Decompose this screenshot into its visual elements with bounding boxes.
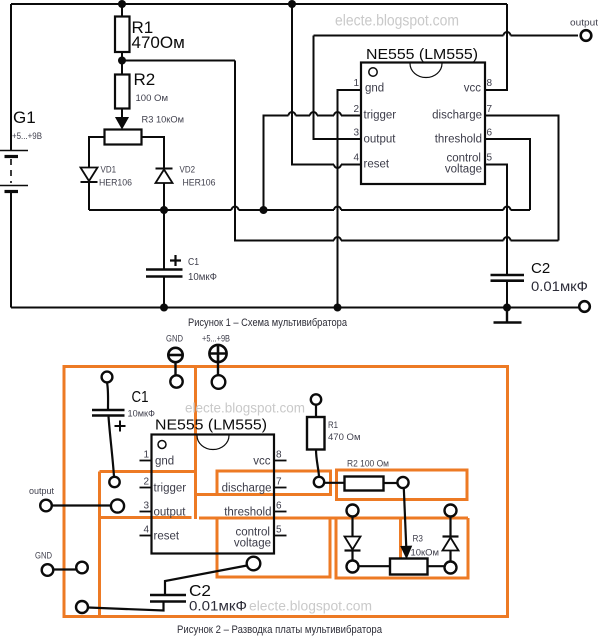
svg-text:C2: C2 xyxy=(189,583,211,600)
svg-text:1: 1 xyxy=(143,450,149,461)
diode VD1 pcb xyxy=(345,517,361,561)
svg-text:7: 7 xyxy=(487,104,493,115)
pad R2 right xyxy=(397,477,408,488)
wire output terminal lead xyxy=(52,504,111,506)
svg-text:G1: G1 xyxy=(13,108,36,127)
svg-text:R2 100 Ом: R2 100 Ом xyxy=(347,459,389,470)
svg-text:5: 5 xyxy=(487,153,493,164)
svg-text:8: 8 xyxy=(276,450,282,461)
wire top VCC rail xyxy=(11,3,507,5)
pcb trace diode divider xyxy=(399,518,402,558)
pcb trace V1 vertical xyxy=(194,368,197,519)
pcb outer trace border xyxy=(64,367,508,617)
pcb trace threshold band xyxy=(199,517,468,520)
wire R3 left lead xyxy=(359,565,391,567)
svg-text:7: 7 xyxy=(276,477,282,488)
svg-text:R3: R3 xyxy=(413,534,424,545)
potentiometer R3 xyxy=(105,130,142,145)
svg-text:VD2: VD2 xyxy=(180,165,196,176)
capacitor C1 xyxy=(146,210,183,308)
wire C2 top lead xyxy=(165,566,247,596)
capacitor C2 xyxy=(491,275,525,308)
pin 6 threshold pcb xyxy=(224,501,286,519)
resistor R1 pcb xyxy=(307,405,325,477)
svg-text:NE555 (LM555): NE555 (LM555) xyxy=(155,417,267,434)
svg-text:470Ом: 470Ом xyxy=(132,33,185,52)
wire threshold horizontal xyxy=(89,207,530,210)
pad VD1 top xyxy=(347,505,359,517)
pcb trace discharge box xyxy=(217,471,331,495)
svg-text:0.01мкФ: 0.01мкФ xyxy=(189,599,247,614)
resistor R2 xyxy=(115,75,130,109)
wire pot left bracket xyxy=(89,137,105,168)
wire R1 to R2 xyxy=(121,52,123,75)
svg-text:4: 4 xyxy=(143,525,149,536)
svg-text:threshold: threshold xyxy=(435,134,482,146)
svg-text:4: 4 xyxy=(353,153,359,164)
svg-text:6: 6 xyxy=(276,501,282,512)
wire pot right bracket xyxy=(142,137,165,168)
svg-text:HER106: HER106 xyxy=(99,178,132,189)
pcb trace rectA bottom xyxy=(100,516,192,519)
svg-text:discharge: discharge xyxy=(222,483,272,495)
terminal output top xyxy=(581,30,592,41)
svg-text:voltage: voltage xyxy=(445,164,482,176)
terminal plus xyxy=(209,345,227,376)
IC notch xyxy=(410,64,442,78)
svg-text:Рисунок 1 – Схема мультивибрат: Рисунок 1 – Схема мультивибратора xyxy=(188,317,347,329)
pin 4 reset pcb xyxy=(140,525,180,543)
wire R2 wiper arrow xyxy=(116,109,128,129)
svg-text:gnd: gnd xyxy=(365,83,384,95)
wire battery to ground rail xyxy=(10,193,12,308)
svg-text:10мкФ: 10мкФ xyxy=(188,271,217,283)
label control voltage xyxy=(445,153,482,176)
svg-text:+5...+9В: +5...+9В xyxy=(202,334,230,344)
pin 7 discharge pcb xyxy=(222,477,287,495)
pad R1 bottom xyxy=(314,477,324,487)
wire node A riser to discharge xyxy=(235,61,559,241)
svg-text:C1: C1 xyxy=(188,256,199,268)
wire C2 bottom lead xyxy=(88,602,164,611)
svg-text:5: 5 xyxy=(276,525,282,536)
terminal output pcb xyxy=(40,500,52,512)
svg-text:output: output xyxy=(364,134,397,146)
pin 1 gnd pcb xyxy=(140,450,175,468)
pcb trace left vertical xyxy=(98,472,101,617)
pad GND top xyxy=(170,375,182,387)
svg-text:Рисунок 2 – Разводка платы мул: Рисунок 2 – Разводка платы мультивибрато… xyxy=(177,624,382,636)
pin 1 indicator circle xyxy=(369,68,377,76)
wire threshold drop xyxy=(485,139,530,210)
node gnd rail xyxy=(334,304,342,312)
node reset rail xyxy=(288,0,296,8)
IC notch pcb xyxy=(197,436,229,450)
wire vcc riser xyxy=(485,4,507,90)
svg-text:reset: reset xyxy=(154,531,180,543)
svg-text:R3 10кОм: R3 10кОм xyxy=(142,115,185,126)
svg-text:2: 2 xyxy=(143,477,149,488)
wire GND terminal lead xyxy=(53,568,76,570)
node trigger junction xyxy=(260,206,268,214)
wire control drop to C2 xyxy=(485,165,507,276)
wire trigger riser xyxy=(264,112,362,210)
potentiometer R3 pcb xyxy=(390,559,428,575)
pcb trace H1 xyxy=(100,470,198,473)
svg-text:470 Ом: 470 Ом xyxy=(328,432,361,443)
terminal GND minus xyxy=(168,348,182,376)
node top rail R1 junction xyxy=(118,0,126,8)
pad VD2 top xyxy=(445,505,457,517)
pin 5 control pcb xyxy=(234,525,287,550)
pad R1 top xyxy=(311,394,321,404)
wire output to terminal xyxy=(314,32,579,139)
pad C1 bottom xyxy=(109,477,119,487)
terminal GND left xyxy=(42,564,54,576)
wire ground bottom rail xyxy=(11,307,578,309)
svg-text:output: output xyxy=(570,18,599,28)
battery G1 xyxy=(0,151,28,192)
svg-text:3: 3 xyxy=(143,501,149,512)
resistor R2 pcb xyxy=(324,477,398,491)
pad plus xyxy=(212,375,226,389)
svg-text:electe.blogspot.com: electe.blogspot.com xyxy=(185,401,305,416)
capacitor C1 pcb xyxy=(92,383,126,477)
pad control voltage pcb xyxy=(247,557,261,571)
svg-text:10кОм: 10кОм xyxy=(411,548,440,559)
wire node A to discharge column xyxy=(122,60,235,62)
wire R1 top lead xyxy=(121,4,123,17)
wire R3 right lead xyxy=(428,565,445,567)
pin 2 trigger pcb xyxy=(140,477,187,495)
svg-text:reset: reset xyxy=(364,159,390,171)
svg-text:8: 8 xyxy=(487,78,493,89)
svg-text:+5...+9В: +5...+9В xyxy=(12,131,42,142)
capacitor C2 pcb xyxy=(150,595,186,602)
pad C1 top xyxy=(102,372,113,383)
node diode C1 junction xyxy=(160,206,168,214)
pad output pcb xyxy=(111,499,124,512)
svg-text:GND: GND xyxy=(35,551,52,561)
pcb trace H2 link xyxy=(196,493,218,496)
pad R3 left xyxy=(347,561,359,573)
svg-text:electe.blogspot.com: electe.blogspot.com xyxy=(249,599,372,614)
svg-text:HER106: HER106 xyxy=(183,178,216,189)
svg-text:threshold: threshold xyxy=(224,507,271,519)
wire discharge drop xyxy=(485,116,559,241)
ground symbol xyxy=(494,308,522,323)
svg-text:trigger: trigger xyxy=(364,110,397,122)
svg-text:C2: C2 xyxy=(531,260,550,277)
pcb trace C2 box xyxy=(217,518,330,577)
pin 8 vcc pcb xyxy=(253,450,286,468)
IC U1 pcb box xyxy=(152,435,275,554)
svg-text:NE555 (LM555): NE555 (LM555) xyxy=(366,46,478,63)
svg-text:2: 2 xyxy=(353,104,359,115)
diode VD1 xyxy=(81,168,98,211)
wire R3 wiper arrow pcb xyxy=(401,488,412,558)
svg-text:electe.blogspot.com: electe.blogspot.com xyxy=(335,13,459,30)
wire reset riser xyxy=(292,4,361,168)
node C1 ground xyxy=(160,304,168,312)
svg-text:R2: R2 xyxy=(134,70,156,89)
svg-text:GND: GND xyxy=(166,334,183,344)
svg-text:3: 3 xyxy=(353,128,359,139)
svg-text:voltage: voltage xyxy=(234,538,271,550)
pad GND mid xyxy=(76,562,88,574)
svg-text:C1: C1 xyxy=(132,389,149,406)
pin 3 output pcb xyxy=(140,501,187,519)
pad R3 right xyxy=(445,562,457,574)
svg-text:output: output xyxy=(29,486,54,496)
svg-text:0.01мкФ: 0.01мкФ xyxy=(531,279,588,294)
node R1-R2 junction xyxy=(118,57,126,65)
svg-text:6: 6 xyxy=(487,128,493,139)
terminal output bottom xyxy=(579,301,590,312)
pcb trace diode box xyxy=(336,518,468,578)
pcb trace R2 box xyxy=(337,470,468,500)
svg-text:1: 1 xyxy=(353,78,359,89)
wire gnd riser xyxy=(338,90,362,308)
svg-text:100 Ом: 100 Ом xyxy=(136,93,169,104)
diode VD2 pcb xyxy=(443,517,459,562)
svg-text:vcc: vcc xyxy=(464,83,482,95)
diode VD2 xyxy=(156,169,173,211)
svg-text:10мкФ: 10мкФ xyxy=(128,409,156,420)
svg-text:R1: R1 xyxy=(328,420,338,431)
svg-text:VD1: VD1 xyxy=(101,165,117,176)
pin 1 circle pcb xyxy=(158,441,166,449)
svg-text:vcc: vcc xyxy=(253,456,271,468)
IC U1 NE555 box xyxy=(361,63,485,185)
wire left battery rail xyxy=(10,4,12,150)
svg-text:output: output xyxy=(154,507,187,519)
svg-text:discharge: discharge xyxy=(432,110,482,122)
node C2 ground xyxy=(503,304,511,312)
svg-text:trigger: trigger xyxy=(154,483,187,495)
resistor R1 xyxy=(115,17,130,53)
pad GND bottom xyxy=(76,601,88,613)
svg-text:gnd: gnd xyxy=(155,456,174,468)
